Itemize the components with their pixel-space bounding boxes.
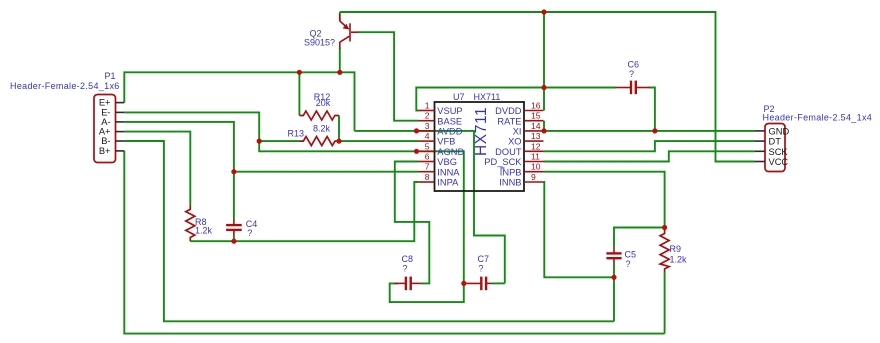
label U7 reference bbox=[453, 92, 465, 102]
svg-text:DOUT: DOUT bbox=[495, 147, 522, 157]
wire AVDD horizontal through U7 bbox=[355, 131, 505, 284]
label C8 reference bbox=[402, 254, 414, 264]
label R12 value bbox=[316, 98, 331, 108]
wire R9 bottom to B+ rail bbox=[664, 272, 666, 334]
svg-text:E-: E- bbox=[101, 107, 110, 117]
capacitor C6 bbox=[616, 81, 651, 95]
wire XI to P2 GND bbox=[544, 130, 756, 132]
svg-text:P1: P1 bbox=[105, 71, 116, 81]
wire DOUT to P2 DT bbox=[544, 141, 756, 151]
label R9 value bbox=[670, 255, 688, 265]
wire C4 bottom to INPA line bbox=[233, 236, 235, 241]
svg-text:6: 6 bbox=[425, 152, 430, 162]
svg-text:HX711: HX711 bbox=[473, 107, 490, 156]
svg-text:Header-Female-2.54_1x4: Header-Female-2.54_1x4 bbox=[763, 113, 873, 123]
wire C6 right leg down bbox=[649, 88, 655, 131]
junction AGND C7 bbox=[461, 281, 466, 286]
svg-text:HX711: HX711 bbox=[474, 92, 501, 102]
label P1 value bbox=[10, 81, 120, 91]
transistor Q2 bbox=[340, 14, 358, 49]
svg-text:C6: C6 bbox=[628, 60, 640, 70]
svg-text:XO: XO bbox=[508, 137, 521, 147]
svg-text:10: 10 bbox=[531, 162, 541, 172]
U7 right pin names bbox=[484, 106, 522, 188]
junction XI C6 bbox=[652, 128, 657, 133]
wire R13 left branch bbox=[259, 140, 299, 142]
wire R9 node to C5 top bbox=[614, 228, 665, 248]
junction XI RATE bbox=[541, 128, 546, 133]
svg-text:1.2k: 1.2k bbox=[195, 226, 213, 236]
wire B+ bottom rail bbox=[124, 151, 664, 334]
svg-text:B-: B- bbox=[101, 136, 110, 146]
svg-text:R13: R13 bbox=[288, 128, 305, 138]
wire RATE link to XI net bbox=[543, 121, 545, 131]
label R8 reference bbox=[195, 217, 207, 227]
resistor R13 bbox=[300, 137, 340, 146]
svg-text:8.2k: 8.2k bbox=[313, 124, 331, 134]
connector P2 bbox=[755, 124, 789, 172]
junction E+ Q2 collector bbox=[337, 70, 342, 75]
svg-text:VSUP: VSUP bbox=[437, 106, 462, 116]
svg-text:U7: U7 bbox=[453, 92, 465, 102]
wire Q2 collector bbox=[339, 48, 341, 73]
label Q2 value bbox=[304, 38, 335, 48]
wire PD_SCK to P2 SCK bbox=[544, 151, 756, 161]
svg-text:5: 5 bbox=[425, 141, 430, 151]
svg-text:8: 8 bbox=[425, 172, 430, 182]
wire top VCC rail bbox=[340, 12, 755, 162]
svg-text:BASE: BASE bbox=[437, 116, 462, 126]
svg-text:GND: GND bbox=[769, 127, 790, 137]
label C4 value bbox=[247, 228, 252, 238]
svg-text:?: ? bbox=[626, 259, 631, 269]
label U7 value HX711 bbox=[474, 92, 501, 102]
svg-text:?: ? bbox=[629, 69, 634, 79]
svg-text:14: 14 bbox=[531, 121, 541, 131]
capacitor C7 bbox=[464, 277, 492, 291]
wire INNB down to C5 bottom node bbox=[544, 182, 615, 277]
svg-text:RATE: RATE bbox=[497, 116, 521, 126]
junction AGND pin bbox=[414, 149, 419, 154]
wire R8 bottom INPA line bbox=[190, 182, 418, 241]
label C5 value bbox=[626, 259, 631, 269]
svg-text:4: 4 bbox=[425, 131, 430, 141]
svg-text:VBG: VBG bbox=[437, 157, 457, 167]
svg-text:E+: E+ bbox=[99, 98, 111, 108]
junction C4 bottom INPA bbox=[231, 239, 236, 244]
connector P1 bbox=[94, 95, 124, 163]
label C6 value bbox=[629, 69, 634, 79]
wire A+ to R8 top bbox=[124, 132, 190, 205]
wire C8 right to VBG bbox=[395, 162, 430, 284]
label C8 value bbox=[403, 264, 408, 274]
wire A- node down to C4 bbox=[233, 172, 235, 219]
resistor R9 bbox=[660, 228, 669, 273]
svg-text:16: 16 bbox=[531, 101, 541, 111]
svg-text:12: 12 bbox=[531, 141, 541, 151]
svg-text:INNB: INNB bbox=[499, 178, 521, 188]
svg-text:C5: C5 bbox=[625, 250, 637, 260]
wire INPB down to R9 node bbox=[544, 172, 665, 228]
svg-text:INPB: INPB bbox=[500, 167, 522, 177]
svg-text:VCC: VCC bbox=[769, 157, 789, 167]
wire A- to INNA bbox=[124, 122, 418, 172]
junction A- INNA C4 bbox=[231, 169, 236, 174]
U7 right pin stubs bbox=[524, 111, 544, 183]
svg-text:11: 11 bbox=[531, 152, 540, 162]
wire Q2 emitter to top rail bbox=[339, 12, 341, 21]
wire R12 bottom to VFB node bbox=[338, 116, 340, 142]
resistor R8 bbox=[186, 205, 195, 241]
svg-text:SCK: SCK bbox=[769, 147, 789, 157]
wire E- to AGND bbox=[124, 112, 464, 302]
junction AVDD pin bbox=[414, 128, 419, 133]
svg-text:C8: C8 bbox=[402, 254, 414, 264]
wire E+ to AVDD net (top horizontal) bbox=[124, 72, 354, 131]
label R8 value bbox=[195, 226, 213, 236]
junction E+ R12 bbox=[297, 70, 302, 75]
svg-text:DT: DT bbox=[769, 137, 782, 147]
svg-text:R9: R9 bbox=[670, 244, 682, 254]
svg-text:VFB: VFB bbox=[437, 137, 455, 147]
svg-text:7: 7 bbox=[425, 162, 430, 172]
wire VFB node to pin 4 bbox=[339, 140, 419, 142]
svg-text:3: 3 bbox=[425, 121, 430, 131]
capacitor C5 bbox=[606, 247, 621, 264]
svg-text:15: 15 bbox=[531, 111, 541, 121]
svg-text:XI: XI bbox=[513, 127, 522, 137]
svg-text:?: ? bbox=[247, 228, 252, 238]
junction R13 left bbox=[257, 139, 262, 144]
U7 right pin numbers bbox=[531, 101, 541, 183]
svg-text:AGND: AGND bbox=[437, 147, 464, 157]
svg-text:9: 9 bbox=[531, 172, 536, 182]
U7 left pin numbers bbox=[425, 101, 430, 183]
label R12 reference bbox=[314, 92, 331, 102]
label C7 value bbox=[479, 264, 484, 274]
label Q2 reference bbox=[310, 29, 322, 39]
junction VCC top rail bbox=[541, 9, 546, 14]
junction C5 bottom INNB bbox=[611, 275, 616, 280]
label C4 reference bbox=[246, 219, 258, 229]
wire B- bottom rail bbox=[124, 141, 614, 321]
label C5 reference bbox=[625, 250, 637, 260]
svg-text:S9015?: S9015? bbox=[304, 38, 335, 48]
svg-text:Header-Female-2.54_1x6: Header-Female-2.54_1x6 bbox=[10, 81, 120, 91]
junction VSUP DVDD C6 bbox=[541, 85, 546, 90]
label P2 value bbox=[763, 113, 873, 123]
label P2 reference bbox=[764, 104, 775, 114]
wire VSUP loop to VCC net bbox=[416, 88, 616, 111]
svg-text:2: 2 bbox=[425, 111, 430, 121]
resistor R12 bbox=[299, 111, 339, 120]
junction R13 R12 VFB bbox=[336, 139, 341, 144]
U7 left pin names bbox=[437, 106, 464, 188]
label C7 reference bbox=[478, 254, 490, 264]
label R13 reference bbox=[288, 128, 305, 138]
IC U7 HX711 body bbox=[435, 102, 525, 191]
svg-text:?: ? bbox=[403, 264, 408, 274]
capacitor C8 bbox=[395, 277, 421, 291]
svg-text:AVDD: AVDD bbox=[437, 127, 462, 137]
U7 left pin stubs bbox=[419, 111, 435, 183]
label R9 reference bbox=[670, 244, 682, 254]
capacitor C4 bbox=[226, 219, 242, 236]
junction INPB R9 C5 bbox=[662, 225, 667, 230]
wire C7 right lead riser bbox=[492, 282, 505, 284]
svg-text:1.2k: 1.2k bbox=[670, 255, 688, 265]
label HX711 vertical bbox=[473, 107, 490, 156]
svg-text:B+: B+ bbox=[99, 146, 111, 156]
svg-text:1: 1 bbox=[425, 101, 430, 111]
svg-text:INNA: INNA bbox=[437, 167, 460, 177]
svg-text:DVDD: DVDD bbox=[495, 106, 522, 116]
label C6 reference bbox=[628, 60, 640, 70]
svg-text:A-: A- bbox=[101, 117, 110, 127]
svg-text:?: ? bbox=[479, 264, 484, 274]
svg-text:C7: C7 bbox=[478, 254, 490, 264]
svg-text:INPA: INPA bbox=[437, 178, 459, 188]
wire C5 bottom node down to B- rail bbox=[613, 264, 615, 321]
wire R12 top branch bbox=[298, 72, 300, 115]
wire DVDD drop from top rail bbox=[543, 12, 545, 111]
svg-text:20k: 20k bbox=[316, 98, 331, 108]
label R13 value bbox=[313, 124, 331, 134]
svg-text:PD_SCK: PD_SCK bbox=[484, 157, 522, 167]
wire Q2 base to U7 BASE pin 2 bbox=[357, 32, 418, 121]
label P1 reference bbox=[105, 71, 116, 81]
svg-text:13: 13 bbox=[531, 131, 541, 141]
